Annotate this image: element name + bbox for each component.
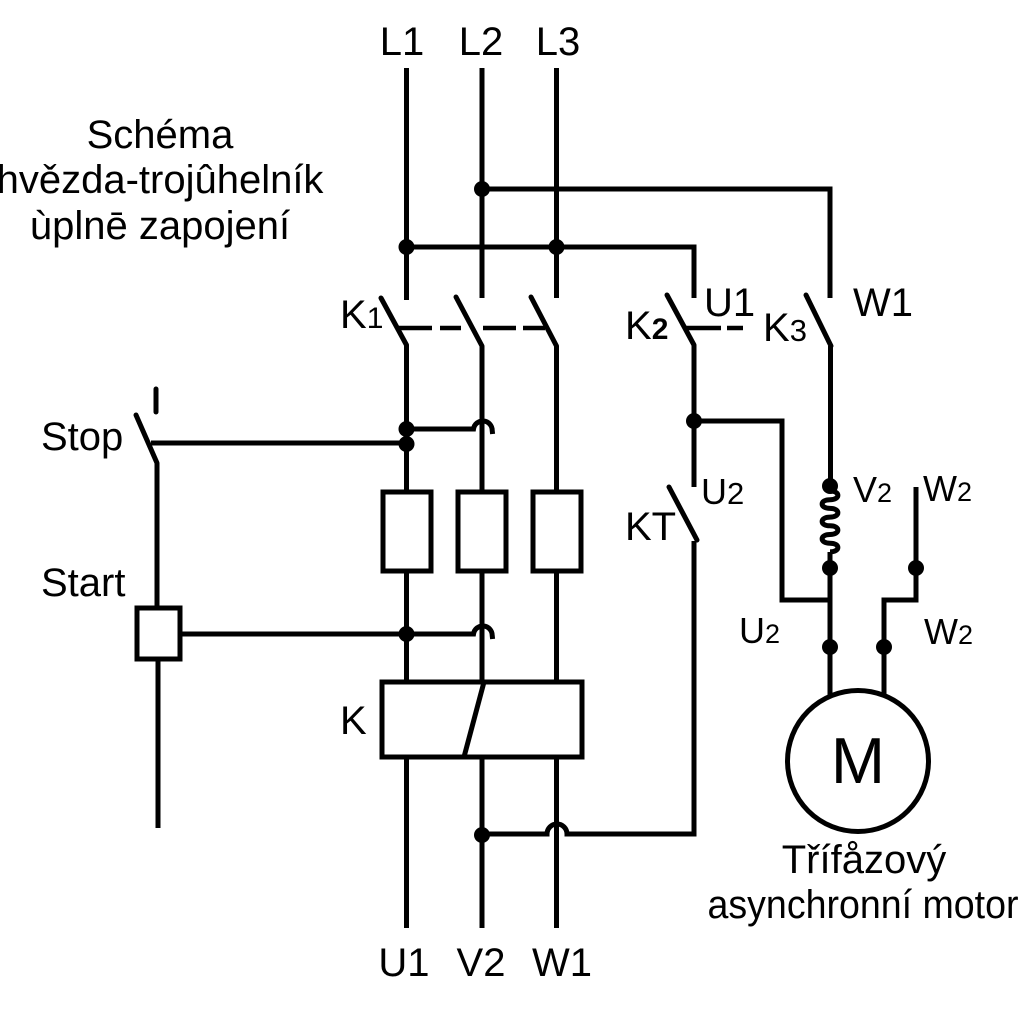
junction dot start rail — [399, 626, 415, 642]
inductor V2 winding — [822, 491, 838, 552]
svg-text:L2: L2 — [459, 20, 504, 64]
wire start to rail — [180, 632, 407, 637]
motor circle — [788, 691, 929, 832]
wire pole1 to coil — [404, 571, 409, 682]
contactor K3 blade — [806, 295, 831, 346]
wire L2 vertical top — [480, 68, 485, 298]
contactor K1 pole 2 blade — [456, 297, 482, 346]
contact KT blade — [669, 487, 697, 540]
svg-text:W1: W1 — [853, 281, 913, 325]
overload heater F2 — [458, 492, 506, 571]
junction dot V2 bottom rail — [474, 827, 490, 843]
svg-text:K3: K3 — [763, 306, 807, 350]
coil K diagonal — [464, 682, 484, 757]
junction dot stop rail — [399, 436, 415, 452]
svg-text:M: M — [831, 724, 885, 797]
junction dot aux upper — [399, 421, 415, 437]
K1 mechanical link dashed line — [398, 326, 545, 331]
svg-text:KT: KT — [625, 505, 676, 549]
svg-text:U2: U2 — [701, 471, 744, 512]
svg-text:U1: U1 — [378, 941, 429, 985]
svg-text:Schéma: Schéma — [87, 113, 234, 157]
overload heater F3 — [533, 492, 581, 571]
wire pole3 to coil — [554, 571, 559, 682]
svg-text:asynchronní motor: asynchronní motor — [708, 883, 1019, 927]
wire pole2 middle — [480, 346, 485, 492]
junction dot L2 tap — [474, 181, 490, 197]
contactor K1 pole 1 blade — [381, 298, 407, 345]
svg-text:ùplnē zapojení: ùplnē zapojení — [30, 204, 290, 248]
wire L2 to K3 branch — [482, 189, 830, 298]
svg-text:Start: Start — [41, 561, 125, 605]
W2 stub wire — [884, 487, 916, 696]
junction dot K2 branch — [686, 413, 702, 429]
wire start below stub — [156, 659, 161, 828]
svg-text:V2: V2 — [457, 941, 506, 985]
junction dot motor lead right — [876, 639, 892, 655]
svg-text:hvězda-trojûhelník: hvězda-trojûhelník — [0, 158, 324, 202]
wire L3 vertical top — [554, 68, 559, 298]
junction dot inductor bottom — [822, 560, 838, 576]
start button box — [137, 608, 180, 659]
overload heater F1 — [383, 492, 431, 571]
junction dot L1 tap — [399, 239, 415, 255]
svg-text:K: K — [340, 699, 367, 743]
wire junction to delta branch — [694, 421, 828, 600]
wire V2 to KT with hop over W1 — [482, 541, 694, 834]
contactor coil K box — [382, 682, 582, 757]
aux wire hop over L2 upper — [407, 421, 493, 434]
junction dot motor lead left — [822, 639, 838, 655]
wire L1 to K2 branch — [407, 247, 695, 298]
junction dot W2 — [908, 560, 924, 576]
wire V2 bottom — [480, 757, 485, 928]
wire K3 down — [828, 346, 833, 482]
svg-text:Stop: Stop — [41, 415, 123, 459]
wire U1 bottom — [404, 757, 409, 928]
K2 link bar and dash — [684, 326, 743, 331]
svg-text:Třífåzový: Třífåzový — [782, 838, 946, 882]
wire stop to rail — [151, 441, 407, 446]
stop button top stub — [154, 389, 159, 412]
wire stop below — [155, 463, 160, 608]
stop button blade — [136, 415, 157, 463]
wire K2 to junction — [692, 345, 697, 487]
aux wire hop over L2 lower — [407, 626, 493, 639]
svg-text:U1: U1 — [704, 281, 755, 325]
wire pole1 middle — [404, 345, 409, 492]
wire L1 vertical top — [404, 68, 409, 300]
svg-text:L1: L1 — [380, 20, 425, 64]
junction dot inductor top — [822, 478, 838, 494]
svg-text:W1: W1 — [532, 941, 592, 985]
contactor K1 pole 3 blade — [531, 297, 557, 346]
wire inductor to motor — [828, 552, 833, 698]
wire W1 bottom — [554, 757, 559, 928]
wire pole2 to coil — [480, 571, 485, 682]
svg-text:L3: L3 — [536, 20, 581, 64]
junction dot L3 tap — [549, 239, 565, 255]
wire pole3 middle — [554, 346, 559, 492]
contactor K2 blade — [667, 295, 694, 345]
